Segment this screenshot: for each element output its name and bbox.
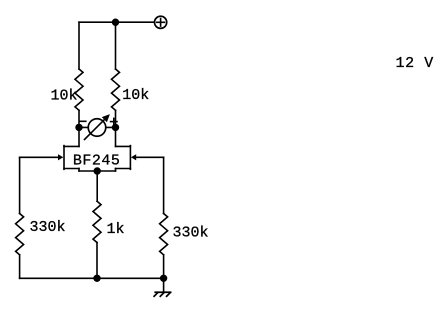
junction bottom rail ground	[161, 275, 167, 281]
svg-text:12 V: 12 V	[396, 55, 434, 72]
transistor Q1 BF245 left JFET	[20, 146, 79, 171]
resistor R5 330k right	[160, 214, 168, 255]
wire right drain branch upper	[115, 22, 117, 69]
svg-text:10k: 10k	[122, 87, 149, 104]
svg-text:1k: 1k	[107, 221, 125, 238]
resistor R3 1k	[93, 201, 101, 242]
wire R3 to bottom rail	[96, 243, 98, 279]
junction source node	[94, 168, 100, 174]
junction top rail	[113, 19, 119, 25]
meter plus mark	[111, 118, 117, 124]
transistor Q2 BF245 right JFET	[116, 146, 164, 171]
wire bottom rail	[20, 277, 164, 279]
ground	[154, 278, 171, 296]
wire right drain branch lower	[115, 110, 117, 146]
meter M1	[85, 114, 110, 139]
resistor R4 330k left	[16, 214, 24, 255]
svg-text:BF245: BF245	[73, 152, 121, 169]
wire left drain branch lower	[78, 110, 80, 146]
wire meter rail	[79, 126, 116, 128]
svg-text:330k: 330k	[30, 219, 66, 236]
power terminal +V	[155, 16, 167, 28]
junction bottom rail R3	[94, 275, 100, 281]
wire left drain branch upper	[78, 22, 80, 69]
wire R5 to bottom rail	[163, 255, 165, 278]
meter minus mark	[80, 120, 86, 122]
wire source tie	[79, 170, 116, 172]
wire R4 to bottom rail	[19, 255, 21, 278]
wire source to R3	[96, 171, 98, 201]
wire V+ top rail	[79, 21, 155, 23]
svg-text:10k: 10k	[51, 88, 78, 105]
wire left gate branch	[19, 157, 21, 213]
resistor R2 10k right	[112, 69, 120, 110]
resistor R1 10k left	[75, 69, 83, 110]
junction right drain node	[113, 125, 119, 131]
wire right gate branch	[163, 157, 165, 213]
svg-text:330k: 330k	[173, 225, 209, 242]
junction left drain node	[76, 125, 82, 131]
